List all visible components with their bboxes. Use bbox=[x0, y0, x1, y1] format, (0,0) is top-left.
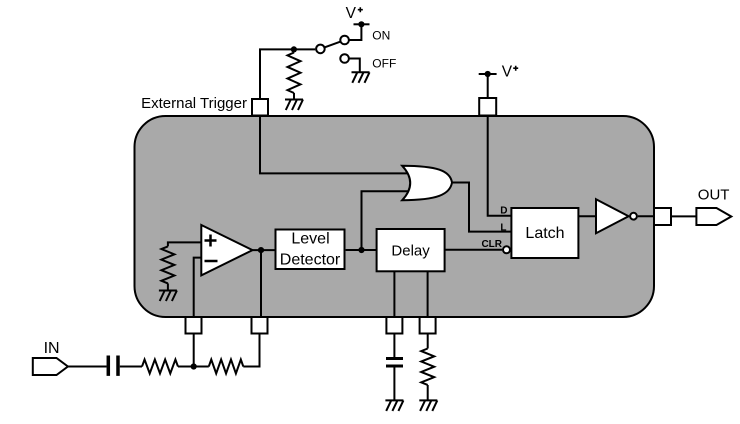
svg-text:V: V bbox=[502, 64, 513, 81]
node op-amp output bbox=[258, 247, 264, 253]
svg-text:L: L bbox=[500, 223, 506, 234]
wire out pin to OUT arrow bbox=[671, 215, 696, 217]
block Delay bbox=[377, 229, 445, 271]
node V+ dot (top right) bbox=[485, 71, 491, 77]
wire OFF contact to ground bbox=[349, 59, 360, 72]
block Latch bbox=[511, 208, 578, 258]
svg-text:Delay: Delay bbox=[391, 243, 430, 260]
wire delay to CLR bubble bbox=[445, 249, 503, 251]
wire trigger pin to OR top input bbox=[260, 116, 409, 174]
OUT arrow bbox=[696, 208, 731, 225]
wire R2 to bottom pin 2 bbox=[243, 334, 259, 367]
block Level Detector bbox=[276, 230, 345, 270]
wire + input to resistor bbox=[168, 242, 201, 246]
pin bottom 3 (delay cap) bbox=[386, 317, 402, 334]
svg-text:Detector: Detector bbox=[280, 252, 341, 269]
node before delay bbox=[358, 247, 364, 253]
pin External Trigger bbox=[252, 99, 268, 116]
wire delay to bottom pin 3 bbox=[393, 271, 395, 317]
pin bottom 2 (op-amp output) bbox=[252, 317, 268, 334]
switch pole contact bbox=[316, 45, 325, 54]
svg-text:Latch: Latch bbox=[525, 225, 564, 242]
svg-text:ON: ON bbox=[372, 29, 390, 43]
wire resistor to ground bbox=[293, 49, 295, 99]
resistor R1 (series) bbox=[142, 360, 178, 374]
pin bottom 4 (delay res) bbox=[420, 317, 436, 334]
wire trigger pin to switch node bbox=[260, 49, 315, 99]
wire resistor to ground bbox=[167, 283, 169, 290]
resistor R-trigger bbox=[288, 53, 301, 94]
svg-text:IN: IN bbox=[44, 340, 60, 357]
ground below C-delay bbox=[385, 400, 403, 411]
svg-text:Level: Level bbox=[291, 231, 329, 248]
wire inverter to out pin bbox=[638, 215, 654, 217]
wire level detector to delay bbox=[346, 249, 377, 251]
IC body bbox=[135, 116, 655, 317]
IN arrow bbox=[33, 358, 68, 375]
wire op-amp output to level detector bbox=[253, 249, 275, 251]
ground below R-trigger bbox=[285, 100, 303, 111]
CLR inverting bubble bbox=[503, 246, 510, 253]
op-amp comparator bbox=[201, 225, 252, 275]
switch OFF contact bbox=[340, 54, 349, 63]
svg-text:D: D bbox=[500, 206, 507, 217]
capacitor C-delay bbox=[386, 359, 403, 367]
pin bottom 1 (inverting input) bbox=[186, 317, 202, 334]
node input junction bbox=[191, 363, 197, 369]
capacitor C-in bbox=[108, 356, 118, 376]
ground below OFF bbox=[352, 72, 370, 83]
V+ supply bar (switch) bbox=[354, 23, 370, 25]
svg-text:V: V bbox=[346, 5, 357, 22]
wire V+ pin to latch D input bbox=[488, 116, 512, 216]
wire bottom pin 4 to resistor bbox=[427, 334, 429, 349]
or-gate bbox=[402, 166, 452, 200]
ground below R-delay bbox=[419, 400, 437, 411]
wire op-amp output node to bottom pin 2 bbox=[260, 250, 262, 317]
wire - input to bottom pin 1 bbox=[194, 258, 202, 317]
switch arm bbox=[324, 42, 340, 48]
V+ supply bar (top right) bbox=[479, 73, 497, 75]
ground below R-opamp bbox=[159, 291, 177, 302]
pin V+ bbox=[479, 98, 496, 116]
svg-text:OUT: OUT bbox=[698, 187, 730, 204]
svg-text:CLR: CLR bbox=[481, 239, 502, 250]
wire level-detector node to OR bottom input bbox=[362, 191, 410, 250]
wire resistor to ground bbox=[427, 385, 429, 400]
svg-text:OFF: OFF bbox=[372, 57, 396, 71]
wire OR output to latch L input bbox=[452, 183, 511, 232]
wire R1 to node bbox=[178, 366, 209, 368]
resistor R2 (to output pin) bbox=[209, 360, 243, 374]
inverter U-out bbox=[596, 199, 629, 233]
resistor R-opamp bbox=[161, 246, 174, 283]
node switch/resistor junction bbox=[291, 46, 297, 52]
switch ON contact bbox=[340, 36, 349, 45]
wire delay to bottom pin 4 bbox=[427, 271, 429, 317]
wire node to bottom pin 1 bbox=[193, 334, 195, 367]
wire IN to capacitor bbox=[68, 366, 107, 368]
node V+ dot (switch) bbox=[358, 21, 364, 27]
wire latch output to inverter bbox=[578, 215, 596, 217]
wire V+ to pin bbox=[487, 74, 489, 98]
pin OUT bbox=[654, 208, 671, 225]
resistor R-delay bbox=[421, 349, 434, 385]
wire ON contact to V+ bbox=[349, 24, 362, 40]
wire bottom pin 3 to capacitor bbox=[393, 334, 395, 358]
svg-text:External Trigger: External Trigger bbox=[141, 95, 247, 112]
wire capacitor to ground bbox=[393, 368, 395, 401]
wire capacitor to R1 bbox=[120, 366, 142, 368]
